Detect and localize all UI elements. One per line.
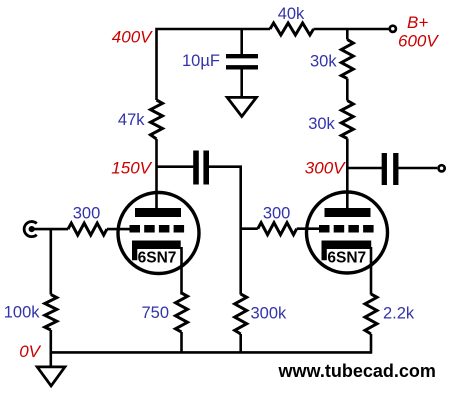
wire: 150V node to interstage coupling capacitor	[157, 165, 194, 168]
wire: 10uF bottom lead to ground	[240, 69, 243, 97]
wire: 40k right lead to B+ terminal	[314, 28, 389, 31]
wire: 100k bottom lead through 0V node to ground symbol	[49, 330, 52, 367]
wire: tube V2 cathode lead	[370, 247, 373, 295]
tube V1 plate	[135, 208, 181, 217]
svg-text:10µF: 10µF	[182, 52, 220, 70]
capacitor output coupling	[384, 153, 396, 185]
wire: ground rail along bottom	[51, 351, 371, 354]
svg-text:300V: 300V	[305, 159, 346, 178]
svg-text:300: 300	[263, 205, 291, 223]
resistor 300k	[235, 294, 247, 334]
wire: 300k bottom lead to ground rail	[239, 334, 242, 353]
capacitor 10uF plates	[226, 56, 258, 67]
wire: tube V1 cathode lead	[180, 247, 183, 295]
svg-text:B+: B+	[407, 13, 428, 32]
svg-text:300: 300	[73, 205, 101, 223]
svg-text:40k: 40k	[278, 5, 305, 23]
svg-text:400V: 400V	[112, 28, 153, 47]
svg-text:2.2k: 2.2k	[383, 305, 415, 323]
resistor 300 grid stopper V2	[258, 223, 297, 235]
svg-text:0V: 0V	[19, 342, 41, 361]
wire: between the two 30k resistors	[346, 79, 349, 101]
wire: 47k bottom lead down to tube V1 plate (150V node)	[155, 139, 158, 209]
ground at 0V node	[37, 367, 65, 386]
tube V1 cathode	[132, 241, 181, 261]
svg-text:47k: 47k	[118, 111, 145, 129]
svg-text:300k: 300k	[251, 305, 288, 323]
resistor 2.2k	[365, 294, 377, 334]
tube V2 plate	[325, 208, 371, 217]
wire: 10uF capacitor top lead	[240, 29, 243, 55]
svg-text:30k: 30k	[310, 53, 337, 71]
wire: coupling capacitor to tube V2 grid node (down to 300k)	[209, 167, 241, 295]
svg-text:150V: 150V	[111, 159, 152, 178]
wire: top rail tap to 30k chain	[346, 29, 349, 40]
tube V2 grid (dashed)	[319, 225, 374, 233]
terminal output	[439, 165, 445, 171]
wire: input node down to 100k	[49, 229, 52, 294]
resistor 30k upper	[341, 40, 353, 79]
wire: 750 bottom lead to ground rail	[180, 332, 183, 353]
tube V1 envelope	[118, 193, 199, 274]
terminal B+	[390, 26, 396, 32]
tube V2 cathode	[322, 241, 372, 261]
svg-text:6SN7: 6SN7	[327, 250, 366, 267]
resistor 100k	[45, 295, 57, 331]
wire: grid node to grid stopper of V2	[241, 227, 258, 230]
wire: 300 to tube V1 grid	[107, 228, 130, 231]
resistor 47k	[151, 100, 163, 139]
svg-text:www.tubecad.com: www.tubecad.com	[278, 361, 436, 381]
wire: output capacitor to output terminal	[398, 167, 437, 170]
resistor 750	[176, 293, 188, 332]
ground under 10uF	[227, 97, 256, 116]
capacitor interstage coupling	[196, 151, 206, 185]
svg-text:100k: 100k	[4, 304, 41, 322]
terminal input jack	[24, 222, 37, 237]
svg-text:600V: 600V	[398, 32, 439, 51]
resistor 300 grid stopper V1	[68, 223, 107, 235]
resistor 40k	[270, 23, 314, 35]
svg-text:6SN7: 6SN7	[138, 250, 177, 267]
wire: 2.2k bottom lead to ground rail corner	[370, 334, 373, 354]
wire: 300 to tube V2 grid	[297, 227, 320, 230]
svg-text:750: 750	[141, 304, 169, 322]
wire: B+ rail from 400V corner to 40k left lead	[157, 29, 271, 100]
wire: 30k lower lead down to tube V2 plate (300V node)	[346, 139, 349, 210]
wire: 300V node to output capacitor	[347, 167, 382, 170]
tube V2 envelope	[307, 192, 388, 273]
wire: input jack to grid stopper of V1	[32, 228, 68, 231]
svg-text:30k: 30k	[308, 115, 335, 133]
resistor 30k lower	[341, 101, 353, 139]
tube V1 grid (dashed)	[130, 225, 185, 233]
